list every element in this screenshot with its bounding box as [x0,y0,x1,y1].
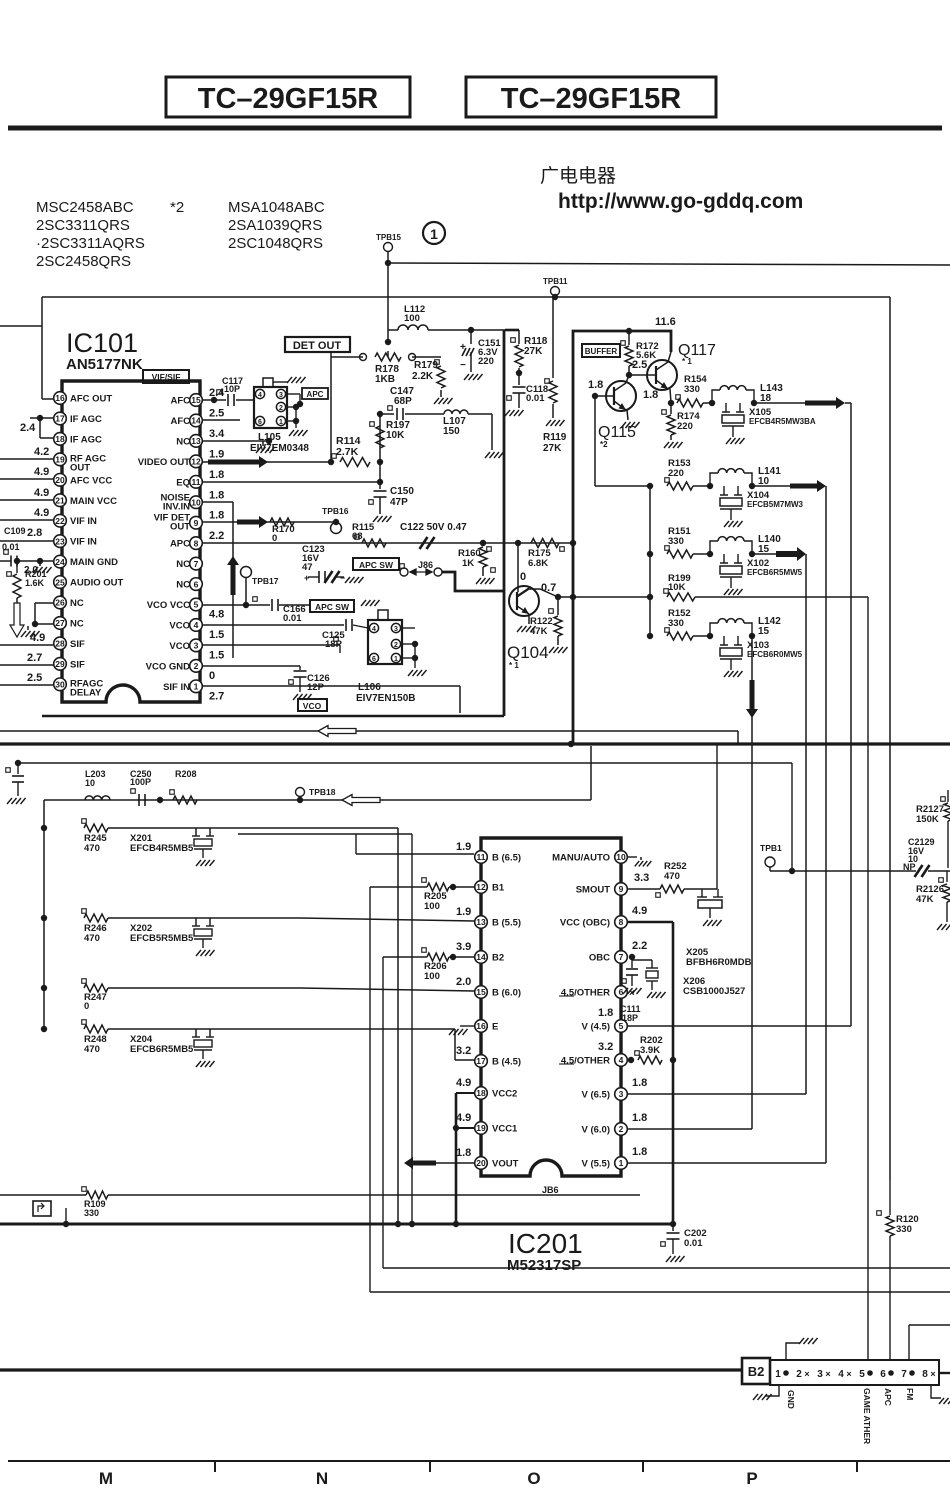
svg-text:5: 5 [194,600,199,610]
svg-text:220: 220 [677,421,693,432]
wire B2 feed thick [0,1368,742,1371]
svg-text:29: 29 [55,659,65,669]
svg-text:18: 18 [55,434,65,444]
svg-text:MSA1048ABC: MSA1048ABC [228,199,325,216]
arrow VOUT out [434,1162,474,1164]
wire pin17/18 2.4 feed [30,417,53,419]
svg-text:2.2: 2.2 [632,940,647,952]
filter L105 EIV7EM0348 [254,387,287,428]
svg-text:14: 14 [476,952,486,962]
svg-text:VOUT: VOUT [492,1159,519,1170]
underline 4.5 labels [559,995,574,997]
svg-text:4.8: 4.8 [209,609,224,621]
svg-text:* 1: * 1 [509,661,519,670]
IC201 pin 10 [615,851,628,864]
svg-text:1.5: 1.5 [209,649,224,661]
svg-text:TPB1: TPB1 [760,843,782,853]
svg-text:C109: C109 [4,526,26,536]
filter L106 EIV7EN150B [368,620,402,664]
svg-text:330: 330 [684,384,700,395]
svg-text:4: 4 [619,1055,624,1065]
svg-text:2.7: 2.7 [27,652,42,664]
svg-text:×: × [804,1369,809,1379]
svg-text:100: 100 [424,971,440,982]
svg-text:1.8: 1.8 [632,1146,647,1158]
svg-text:EFCB5M7MW3: EFCB5M7MW3 [747,500,804,509]
svg-text:1.8: 1.8 [456,1147,471,1159]
svg-text:2.8: 2.8 [27,527,42,539]
wire Q104 collector row [555,594,561,600]
svg-text:1: 1 [430,226,438,242]
svg-text:TPB11: TPB11 [543,277,568,286]
svg-text:330: 330 [668,618,684,629]
wire nest line y1292 [370,1291,950,1293]
svg-text:2.5: 2.5 [27,672,42,684]
svg-text:APC: APC [883,1388,893,1406]
arrow left open on mid rail [318,726,356,737]
arrow audio out hollow [16,598,18,603]
svg-text:4.5/OTHER: 4.5/OTHER [561,1056,610,1067]
wire sub rail y763 [15,760,21,766]
svg-text:68P: 68P [394,396,412,407]
wire X103 output down arrow [751,636,753,680]
svg-text:4.5/OTHER: 4.5/OTHER [561,988,610,999]
svg-text:9: 9 [619,884,624,894]
svg-text:15: 15 [191,395,201,405]
svg-text:4: 4 [194,620,199,630]
wire pin14 AFC [203,419,240,421]
IC201 pin 11 [475,851,488,864]
IC201 pin 4 [615,1054,628,1067]
svg-text:10K: 10K [668,582,686,593]
wire B2 right continues [939,1372,950,1374]
svg-text:Q115: Q115 [598,424,636,441]
svg-text:1.9: 1.9 [456,841,471,853]
wire TPB15 to right edge [385,260,391,266]
wire pin26 pin27 NC stubs [35,602,53,604]
svg-text:BFBH6R0MDB: BFBH6R0MDB [686,957,752,968]
IC201 pin 12 [475,881,488,894]
svg-text:VCO GND: VCO GND [146,661,190,672]
resistor R170 0 [270,518,294,526]
svg-text:VCO: VCO [169,641,190,652]
svg-text:100: 100 [424,901,440,912]
resistor R245 470 [41,825,47,831]
svg-text:21: 21 [55,495,65,505]
svg-text:12P: 12P [307,682,325,693]
wire L106 right pins [401,627,415,629]
wire pin12 VIDEO OUT arrow [203,461,331,463]
svg-text:APC: APC [307,390,324,399]
resistor R201 [14,558,20,564]
svg-text:APC SW: APC SW [359,560,394,570]
svg-text:7: 7 [619,952,624,962]
wire pin8 thick to v673 [628,921,673,923]
svg-text:19: 19 [55,455,65,465]
wire pin23 VIF IN [0,540,53,542]
svg-text:OBC: OBC [589,953,610,964]
svg-text:150K: 150K [916,814,939,825]
svg-text:V (6.5): V (6.5) [581,1090,610,1101]
svg-text:MAIN GND: MAIN GND [70,557,118,568]
svg-text:3.9: 3.9 [456,941,471,953]
wire pin28 SIF [0,644,53,646]
resistor R179 2.2K [412,356,441,358]
svg-text:N: N [316,1469,328,1488]
resistor R206 100 [422,948,427,953]
svg-text:IF AGC: IF AGC [70,434,102,445]
svg-text:C122 50V 0.47: C122 50V 0.47 [400,522,467,533]
svg-text:1.8: 1.8 [632,1077,647,1089]
svg-text:1: 1 [194,682,199,692]
svg-text:6: 6 [880,1369,886,1380]
svg-text:VCO VCC: VCO VCC [147,600,190,611]
svg-text:2: 2 [194,661,199,671]
svg-text:2: 2 [796,1369,802,1380]
svg-text:2SC2458QRS: 2SC2458QRS [36,253,131,270]
IC201 pin 2 [615,1123,628,1136]
svg-text:1.8: 1.8 [209,489,224,501]
svg-text:1: 1 [279,419,283,426]
svg-text:68: 68 [352,531,363,542]
svg-text:E: E [492,1022,498,1033]
svg-text:3: 3 [279,392,283,399]
svg-text:2: 2 [394,642,398,649]
svg-text:BUFFER: BUFFER [585,347,618,356]
svg-text:×: × [930,1369,935,1379]
svg-text:6: 6 [258,419,262,426]
svg-text:INV.IN: INV.IN [163,501,190,512]
svg-text:VCO: VCO [303,701,322,711]
svg-text:3: 3 [394,626,398,633]
svg-text:27: 27 [55,618,65,628]
svg-text:4: 4 [838,1369,844,1380]
svg-text:3.9K: 3.9K [640,1045,660,1056]
title box TC-29GF15R right [466,77,716,117]
svg-text:11.6: 11.6 [655,316,676,328]
IC201 pin 9 [615,883,628,896]
svg-text:M52317SP: M52317SP [507,1257,581,1274]
wire B2 pin8 ground [931,1385,941,1398]
svg-text:2.0: 2.0 [456,976,471,988]
svg-text:2SC3311QRS: 2SC3311QRS [36,217,130,234]
svg-text:470: 470 [664,871,680,882]
svg-text:1.8: 1.8 [209,510,224,522]
transistor Q104 [509,586,539,616]
svg-text:10P: 10P [224,384,240,394]
node circle 1 [423,222,445,244]
filter unit L142 X103 [693,635,710,637]
svg-text:EFCB5R5MB5: EFCB5R5MB5 [130,933,194,944]
svg-text:IC101: IC101 [66,328,138,358]
svg-text:B1: B1 [492,883,505,894]
svg-text:AUDIO OUT: AUDIO OUT [70,578,124,589]
svg-text:B2: B2 [492,953,504,964]
svg-text:NC: NC [176,436,190,447]
svg-text:8: 8 [922,1369,928,1380]
svg-text:8: 8 [619,917,624,927]
svg-text:VIF/SIF: VIF/SIF [152,372,181,382]
resistor R172 5.6K [621,341,626,346]
wire R199 line to GAME vertical [695,596,868,598]
capacitor C109 [10,556,12,567]
wire X205 up to rail [716,744,718,889]
svg-text:0.01: 0.01 [684,1238,703,1249]
label box VIF/SIF [143,370,189,383]
svg-text:FM: FM [905,1388,915,1400]
svg-text:×: × [846,1369,851,1379]
resistor R119 27K [554,297,556,336]
wire pin8 APC long line [203,542,573,544]
arrow L140 output [752,553,776,555]
svg-text:1.5: 1.5 [209,629,224,641]
svg-text:AFC OUT: AFC OUT [70,394,112,405]
svg-text:4.9: 4.9 [30,632,45,644]
wire B2 pin1 ground above [786,1343,800,1360]
svg-text:R179: R179 [414,360,438,371]
svg-text:R208: R208 [175,769,197,779]
svg-text:20: 20 [55,475,65,485]
svg-text:TC–29GF15R: TC–29GF15R [198,83,379,115]
svg-text:47K: 47K [530,626,548,637]
svg-text:1KB: 1KB [375,374,395,385]
svg-text:4.9: 4.9 [34,466,49,478]
wire pin20 AFC VCC [0,478,53,480]
svg-text:V (5.5): V (5.5) [581,1159,610,1170]
test point TPB18 [296,788,305,797]
svg-text:47P: 47P [390,497,408,508]
svg-text:23: 23 [55,536,65,546]
transistor Q115 [606,381,636,411]
svg-text:EIV7EN150B: EIV7EN150B [356,693,415,704]
svg-text:NC: NC [176,580,190,591]
svg-text:18: 18 [476,1088,486,1098]
capacitor C150 47P [379,462,381,482]
svg-text:47K: 47K [916,894,934,905]
svg-text:20: 20 [476,1158,486,1168]
IC201 pin 13 [475,916,488,929]
wire pin3 VCO [203,644,340,646]
svg-text:30: 30 [55,680,65,690]
svg-text:12: 12 [191,457,201,467]
svg-text:3.2: 3.2 [598,1041,613,1053]
svg-text:* 1: * 1 [682,357,692,366]
label box APC [302,388,328,399]
wire Q115 base down [594,396,596,486]
svg-text:2.2K: 2.2K [412,371,434,382]
svg-text:EQ: EQ [176,477,190,488]
svg-text:·2SC3311AQRS: ·2SC3311AQRS [36,235,145,252]
svg-text:C150: C150 [390,486,414,497]
svg-text:DET OUT: DET OUT [293,340,342,352]
svg-text:MSC2458ABC: MSC2458ABC [36,199,134,216]
resistor R120 330 [877,1211,882,1216]
resistor R122 47K [549,609,554,614]
svg-text:1K: 1K [462,558,474,569]
svg-text:100: 100 [404,313,420,324]
svg-text:VCC2: VCC2 [492,1089,517,1100]
IC201 pin 3 [615,1088,628,1101]
svg-text:OUT: OUT [70,462,90,473]
svg-text:GAME ATHER: GAME ATHER [862,1388,872,1444]
svg-text:0.01: 0.01 [2,542,20,552]
capacitor C111 and X206 on OBC [629,954,635,960]
IC201 pin 18 [475,1087,488,1100]
wire mid rail thin [0,730,738,732]
svg-text:OUT: OUT [170,522,190,533]
svg-text:1.9: 1.9 [209,448,224,460]
IC201 pin 16 [475,1020,488,1033]
resonator X205 [701,889,703,897]
svg-text:0: 0 [84,1001,89,1012]
wire pin21 MAIN VCC [0,499,53,501]
node R178 line [385,339,391,345]
svg-text:MANU/AUTO: MANU/AUTO [552,853,610,864]
svg-text:2SA1039QRS: 2SA1039QRS [228,217,322,234]
wire pin9 VIF DET OUT arrow [203,521,336,523]
IC201 pin 7 [615,951,628,964]
svg-text:6: 6 [194,579,199,589]
wire L105 right pins [286,393,300,395]
resistor R178 1KB [360,354,367,361]
wire pin2 VCO GND to C126 [203,665,300,667]
svg-text:4: 4 [372,626,376,633]
capacitor C202 0.01 [672,1224,674,1231]
svg-text:IC201: IC201 [508,1228,583,1259]
arrow open left TPB18 [342,795,380,806]
svg-text:330: 330 [84,1208,99,1218]
svg-text:AFC VCC: AFC VCC [70,475,112,486]
capacitor C118 0.01 [518,373,520,385]
svg-text:V (4.5): V (4.5) [581,1022,610,1033]
IC201 pin 17 [475,1055,488,1068]
wire nest line y1268 [383,1267,950,1269]
IC201 pin10 ground [628,856,637,858]
capacitor C126 12P [294,670,307,672]
wire pin5 row to v851 [628,1025,851,1027]
svg-text:3: 3 [619,1089,624,1099]
IC201 pin 1 [615,1157,628,1170]
svg-text:0: 0 [209,670,215,682]
svg-text:28: 28 [55,639,65,649]
jumper J86 [400,564,405,569]
IC201 pin 19 [475,1122,488,1135]
svg-text:TPB18: TPB18 [309,787,336,797]
IC201 pin 8 [615,916,628,929]
wire pin24 MAIN GND ground [37,558,43,564]
svg-text:4: 4 [258,392,262,399]
svg-text:470: 470 [84,1044,100,1055]
svg-text:TPB16: TPB16 [322,506,349,516]
wire DET OUT vertical to R114 [330,352,332,462]
svg-text:26: 26 [55,598,65,608]
svg-text:EFCB6R0MW5: EFCB6R0MW5 [747,650,803,659]
svg-text:SIF IN: SIF IN [163,682,190,693]
resistor R246 470 [41,915,47,921]
svg-text:25: 25 [55,577,65,587]
label box VCO [298,699,327,711]
svg-text:1: 1 [394,656,398,663]
svg-text:MAIN VCC: MAIN VCC [70,496,117,507]
test point TPB17 [241,567,252,578]
svg-text:12: 12 [476,882,486,892]
svg-text:3.4: 3.4 [209,428,225,440]
svg-text:2: 2 [279,405,283,412]
wire pin3 row [628,1093,806,1095]
wire X201 row to bundle v398 [397,828,399,1224]
svg-text:SIF: SIF [70,639,85,650]
svg-text:0.01: 0.01 [526,393,545,404]
svg-text:8: 8 [194,538,199,548]
svg-text:17: 17 [55,414,65,424]
svg-text:7: 7 [901,1369,907,1380]
svg-text:27K: 27K [524,346,543,357]
svg-text:VIF IN: VIF IN [70,537,97,548]
svg-text:16: 16 [55,393,65,403]
svg-text:−: − [340,573,345,583]
svg-text:330: 330 [896,1224,912,1235]
svg-text:AFC: AFC [170,416,190,427]
svg-text:http://www.go-gddq.com: http://www.go-gddq.com [558,190,803,213]
svg-text:13: 13 [191,436,201,446]
wire TPB1 row to right [792,870,916,872]
wire main thick rail [0,742,950,745]
svg-text:6: 6 [619,987,624,997]
svg-text:10K: 10K [386,430,405,441]
bus left x650 [649,486,651,636]
bottom ruler line [8,1460,950,1462]
filter unit L141 X104 [693,485,710,487]
wire pin29 SIF [0,664,53,666]
svg-text:*2: *2 [600,440,608,449]
svg-text:22: 22 [55,516,65,526]
svg-text:R119: R119 [543,432,567,443]
svg-text:6: 6 [372,656,376,663]
arrow L143 output [754,402,805,404]
svg-text:1.8: 1.8 [643,389,658,401]
wire pin13 NC to L105 gnd [203,440,269,442]
connector B2 pin strip [770,1360,939,1385]
svg-text:VCC1: VCC1 [492,1124,518,1135]
label box BUFFER [582,344,620,357]
svg-text:B (4.5): B (4.5) [492,1057,521,1068]
svg-text:VCO: VCO [169,620,190,631]
svg-text:NP: NP [903,862,916,872]
svg-text:16: 16 [476,1021,486,1031]
svg-text:GND: GND [786,1390,796,1409]
svg-text:10: 10 [616,852,626,862]
wire pin11 feed [355,834,357,854]
svg-text:IF AGC: IF AGC [70,414,102,425]
svg-text:220: 220 [668,468,684,479]
svg-text:1.9: 1.9 [456,906,471,918]
wire L141 to pin1 V5.5 [825,486,827,1163]
svg-text:1.8: 1.8 [632,1112,647,1124]
wire B2 pin7 feed [909,1324,950,1326]
filter unit L143 X105 [703,402,712,404]
resistor R174 220 [662,410,667,415]
svg-text:13: 13 [476,917,486,927]
node dot [157,797,163,803]
svg-text:2.2: 2.2 [209,530,224,542]
svg-text:24: 24 [55,557,65,567]
svg-text:150: 150 [443,426,460,437]
svg-text:B (6.0): B (6.0) [492,988,521,999]
svg-text:9: 9 [194,518,199,528]
svg-text:6.8K: 6.8K [528,558,548,569]
svg-text:1.8: 1.8 [209,469,224,481]
svg-text:V (6.0): V (6.0) [581,1125,610,1136]
